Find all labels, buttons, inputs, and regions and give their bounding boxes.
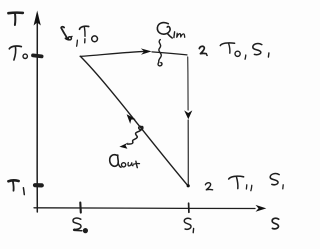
- axis T arrowhead: [34, 11, 41, 26]
- label T (axis): [8, 13, 22, 25]
- tick T1: [35, 183, 42, 187]
- node vertex blob bottom: [187, 184, 190, 187]
- arrowhead on right line (down): [184, 110, 192, 119]
- label 2 (top-right state): [199, 46, 207, 55]
- label S1 (below axis): [184, 218, 193, 232]
- label T0,S1 (top-right): [220, 43, 269, 59]
- label S (axis): [272, 218, 279, 229]
- Q_out squiggle arrow: [119, 126, 142, 148]
- axis T (vertical): [36, 14, 38, 212]
- label T1 (left axis): [8, 180, 24, 194]
- tick T0: [33, 55, 42, 56]
- label Q_out: [110, 155, 140, 168]
- Q_in squiggle arrow: [158, 40, 162, 66]
- label 2 (bottom state): [205, 183, 212, 190]
- arrowhead on diagonal (up-left): [127, 114, 136, 124]
- label Q_in: [157, 23, 184, 38]
- axis S arrowhead: [256, 205, 267, 212]
- label S0,T0 (state 1, top-left): [61, 26, 97, 46]
- label T0 (left axis): [9, 46, 27, 60]
- label T1,S1 (bottom-right): [229, 174, 284, 191]
- wire: right vertical line (2 down to 2'): [187, 57, 189, 110]
- tick S0: [79, 203, 82, 213]
- wire: process 1-2 top line: [80, 51, 148, 56]
- arrowhead on top line: [141, 48, 152, 54]
- wire: diagonal line back to 1: [80, 56, 188, 186]
- tick S1: [188, 203, 190, 212]
- axis S (horizontal): [34, 207, 255, 210]
- label S0 (below axis): [73, 218, 87, 233]
